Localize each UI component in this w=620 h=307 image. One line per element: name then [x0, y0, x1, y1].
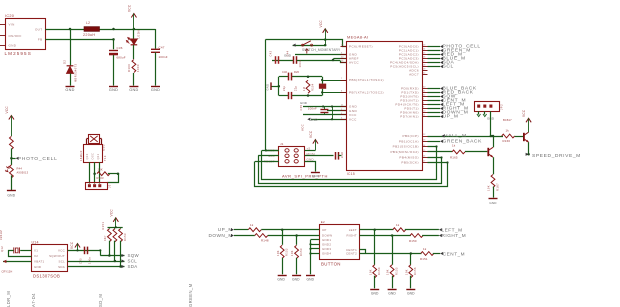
- svg-text:10K: 10K: [98, 168, 103, 172]
- svg-text:ADC7: ADC7: [409, 73, 419, 77]
- svg-text:AVR_SPI_PRG_PTH: AVR_SPI_PRG_PTH: [282, 173, 328, 178]
- svg-text:GND1: GND1: [322, 238, 331, 242]
- svg-text:10K: 10K: [404, 269, 408, 275]
- svg-text:GND4: GND4: [322, 252, 331, 256]
- svg-text:SCL: SCL: [443, 63, 454, 69]
- svg-text:VCC: VCC: [319, 20, 323, 28]
- svg-text:OSC: OSC: [91, 153, 95, 160]
- svg-text:GND3: GND3: [322, 247, 331, 251]
- svg-text:X1: X1: [34, 249, 38, 253]
- svg-text:R151: R151: [420, 257, 428, 261]
- svg-text:LEFT_M: LEFT_M: [442, 227, 463, 232]
- svg-text:VCC: VCC: [70, 241, 74, 249]
- svg-text:R155: R155: [394, 267, 398, 275]
- svg-text:22p: 22p: [295, 85, 298, 91]
- svg-text:10K: 10K: [290, 250, 294, 256]
- svg-text:1k: 1k: [396, 223, 400, 227]
- svg-text:680uF: 680uF: [117, 56, 126, 60]
- svg-text:+5: +5: [307, 146, 311, 150]
- svg-text:BUTTON: BUTTON: [321, 262, 341, 267]
- svg-text:C36: C36: [117, 46, 123, 50]
- svg-text:C44: C44: [286, 50, 290, 56]
- svg-text:C42: C42: [269, 50, 273, 56]
- svg-text:16MHZ: 16MHZ: [79, 150, 83, 161]
- svg-text:R153: R153: [123, 233, 127, 241]
- svg-text:AVCC: AVCC: [349, 61, 359, 65]
- svg-text:A905013: A905013: [17, 171, 29, 175]
- svg-text:R156: R156: [413, 267, 417, 275]
- svg-text:C46: C46: [282, 70, 288, 74]
- svg-text:IC20: IC20: [5, 14, 14, 18]
- svg-text:GND2: GND2: [322, 242, 331, 246]
- svg-text:PD7(AIN1): PD7(AIN1): [400, 115, 419, 119]
- svg-text:GND: GND: [34, 265, 41, 269]
- svg-text:VCC: VCC: [349, 117, 357, 121]
- svg-text:RIGHT_M: RIGHT_M: [442, 233, 467, 238]
- svg-text:GND: GND: [300, 101, 307, 105]
- svg-text:SD_M: SD_M: [98, 294, 103, 307]
- svg-text:1M: 1M: [303, 87, 306, 91]
- svg-text:C47: C47: [159, 46, 165, 50]
- svg-text:4K7: 4K7: [103, 235, 107, 241]
- svg-text:10K: 10K: [276, 250, 280, 256]
- svg-text:1k: 1k: [423, 247, 427, 251]
- svg-text:RIGHT: RIGHT: [347, 234, 358, 238]
- svg-text:R148: R148: [261, 239, 269, 243]
- svg-text:R153: R153: [299, 248, 303, 256]
- svg-text:R26: R26: [294, 70, 300, 74]
- svg-text:R103: R103: [97, 176, 105, 180]
- svg-text:CENT2: CENT2: [346, 252, 357, 256]
- svg-text:GND: GND: [307, 157, 315, 161]
- svg-text:GND: GND: [371, 292, 379, 296]
- svg-text:PB5(SCK): PB5(SCK): [401, 161, 419, 165]
- svg-text:GND: GND: [292, 277, 300, 281]
- svg-text:SCL: SCL: [128, 259, 138, 264]
- svg-text:T13: T13: [103, 155, 107, 161]
- svg-text:IC15: IC15: [347, 172, 355, 176]
- svg-text:GND: GND: [310, 118, 318, 122]
- svg-text:GND: GND: [9, 44, 17, 48]
- svg-text:JP2: JP2: [500, 104, 504, 110]
- svg-text:R100: R100: [127, 64, 131, 72]
- svg-text:100nF: 100nF: [159, 55, 168, 59]
- svg-text:R166: R166: [503, 139, 511, 143]
- svg-text:GREEN_BACK: GREEN_BACK: [443, 138, 483, 144]
- svg-text:32KHZ: 32KHZ: [0, 230, 3, 240]
- svg-text:GND: GND: [489, 201, 497, 205]
- svg-text:Q10: Q10: [85, 153, 89, 159]
- svg-text:CRY12H: CRY12H: [2, 269, 13, 273]
- svg-text:BC817: BC817: [503, 118, 512, 122]
- svg-text:UP: UP: [322, 228, 327, 232]
- svg-text:SDA: SDA: [128, 264, 138, 269]
- svg-text:R165: R165: [450, 156, 458, 160]
- svg-text:MEGA8-AI: MEGA8-AI: [347, 34, 368, 39]
- svg-text:PB2(SS/OC1B): PB2(SS/OC1B): [393, 145, 419, 149]
- svg-text:VCC: VCC: [301, 124, 305, 131]
- svg-text:UP_M: UP_M: [443, 113, 459, 119]
- svg-text:100nF: 100nF: [308, 106, 317, 110]
- svg-text:100n: 100n: [298, 60, 302, 68]
- svg-text:LEFT: LEFT: [349, 228, 357, 232]
- svg-text:GND: GND: [129, 88, 138, 92]
- svg-text:DS1307SOB: DS1307SOB: [33, 273, 60, 278]
- svg-text:Q11: Q11: [96, 153, 100, 159]
- svg-text:PB7(XTAL2/TOSC2): PB7(XTAL2/TOSC2): [349, 91, 384, 95]
- svg-text:SDA: SDA: [58, 265, 65, 269]
- svg-text:10K: 10K: [486, 185, 490, 191]
- svg-text:SQW/OUT: SQW/OUT: [49, 254, 65, 258]
- svg-text:GREEN_M: GREEN_M: [188, 283, 193, 307]
- svg-text:10K: 10K: [386, 269, 390, 275]
- svg-text:PB3(MOSI/OC2): PB3(MOSI/OC2): [390, 150, 419, 154]
- svg-text:PB1(OC1A): PB1(OC1A): [399, 139, 419, 143]
- svg-text:GND: GND: [388, 292, 396, 296]
- svg-text:E2: E2: [321, 220, 325, 224]
- svg-text:VCC: VCC: [128, 4, 132, 12]
- svg-text:10K: 10K: [368, 269, 372, 275]
- svg-text:U14: U14: [32, 241, 39, 245]
- svg-text:GND: GND: [277, 277, 285, 281]
- svg-text:R167: R167: [496, 183, 500, 191]
- svg-text:X2: X2: [34, 254, 38, 258]
- svg-text:SQW: SQW: [128, 253, 140, 258]
- svg-text:GND: GND: [306, 277, 314, 281]
- svg-text:VCC: VCC: [309, 130, 313, 138]
- svg-text:R150: R150: [409, 239, 417, 243]
- svg-text:R152: R152: [285, 248, 289, 256]
- svg-text:R151: R151: [101, 222, 105, 230]
- svg-text:VCC: VCC: [522, 109, 526, 117]
- svg-text:FB: FB: [38, 38, 43, 42]
- svg-text:GND: GND: [312, 174, 320, 178]
- svg-text:GND: GND: [407, 292, 415, 296]
- svg-text:1000: 1000: [136, 64, 140, 72]
- svg-text:1k: 1k: [250, 223, 254, 227]
- svg-text:HALL_M: HALL_M: [444, 133, 467, 139]
- svg-text:GND: GND: [65, 88, 74, 92]
- svg-text:22p: 22p: [283, 85, 286, 91]
- svg-text:R44: R44: [17, 166, 23, 170]
- svg-text:VIN: VIN: [9, 23, 15, 27]
- svg-text:LDR_M: LDR_M: [6, 291, 11, 307]
- svg-text:100n: 100n: [88, 256, 92, 264]
- svg-text:D2: D2: [63, 60, 67, 64]
- svg-text:L2: L2: [86, 21, 90, 25]
- svg-text:SCL: SCL: [58, 260, 65, 264]
- svg-text:GND: GND: [109, 88, 118, 92]
- svg-text:VCC: VCC: [5, 106, 9, 114]
- svg-text:VCC: VCC: [58, 249, 65, 253]
- svg-text:220uH: 220uH: [83, 33, 95, 37]
- svg-text:LM2595S: LM2595S: [5, 51, 32, 56]
- svg-text:VBAT1: VBAT1: [34, 260, 45, 264]
- svg-text:PB0(ICP): PB0(ICP): [403, 134, 419, 138]
- svg-text:J1: J1: [280, 142, 284, 146]
- svg-text:GND: GND: [151, 88, 160, 92]
- svg-text:CENT_M: CENT_M: [443, 251, 465, 256]
- svg-text:R104: R104: [312, 83, 315, 91]
- svg-text:DOWN_M: DOWN_M: [208, 233, 232, 238]
- svg-text:SWITCH_MOMENTARY: SWITCH_MOMENTARY: [302, 48, 341, 52]
- svg-text:C39: C39: [300, 105, 303, 111]
- svg-text:VCC: VCC: [109, 209, 113, 217]
- svg-text:Q12: Q12: [0, 246, 4, 252]
- svg-text:ON/OFF: ON/OFF: [9, 34, 22, 38]
- svg-text:C38: C38: [340, 152, 344, 158]
- svg-text:1k: 1k: [452, 144, 456, 148]
- svg-text:LED6: LED6: [137, 30, 141, 39]
- svg-text:PB6(XTAL1/TOSC1): PB6(XTAL1/TOSC1): [349, 78, 384, 82]
- svg-text:GB3: GB3: [101, 144, 105, 151]
- svg-text:PC6(/RESET): PC6(/RESET): [349, 45, 373, 49]
- svg-text:SPEED_DRIVE_M: SPEED_DRIVE_M: [532, 153, 581, 159]
- svg-text:UP_M: UP_M: [218, 227, 233, 232]
- svg-text:MBRS340T3: MBRS340T3: [74, 63, 78, 82]
- svg-text:R154: R154: [377, 267, 381, 275]
- svg-text:J5: J5: [108, 184, 112, 188]
- svg-text:1k: 1k: [506, 128, 510, 132]
- svg-text:OUT: OUT: [35, 27, 43, 31]
- svg-text:PHOTO_CELL: PHOTO_CELL: [18, 156, 58, 162]
- svg-text:PB4(MISO): PB4(MISO): [399, 155, 419, 159]
- svg-text:GND: GND: [7, 194, 15, 198]
- svg-text:A7-D4: A7-D4: [31, 293, 36, 307]
